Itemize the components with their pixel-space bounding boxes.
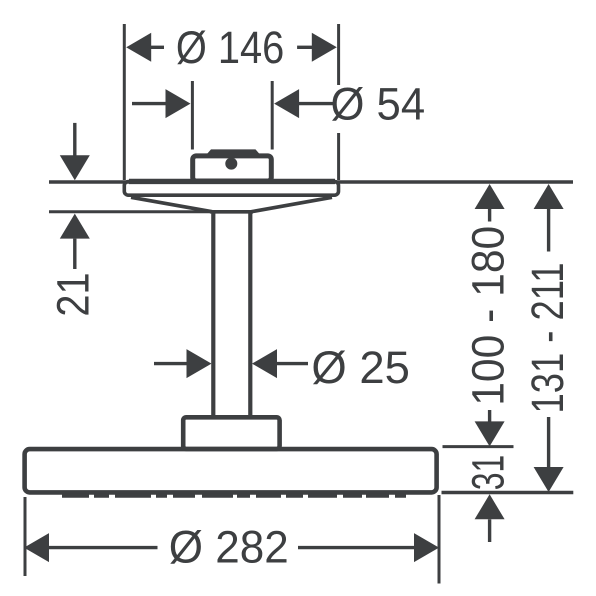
svg-text:Ø 25: Ø 25	[311, 342, 410, 393]
ext line right	[271, 81, 274, 150]
upper stub	[547, 209, 550, 252]
svg-text:21: 21	[48, 272, 99, 316]
lower ref line	[49, 210, 212, 213]
arrow right	[312, 33, 337, 62]
svg-text:31: 31	[463, 455, 514, 491]
pipe collar	[183, 417, 279, 449]
dimension 21	[48, 123, 213, 317]
dimension D146	[124, 22, 338, 180]
arrow up	[475, 494, 505, 519]
arrow left	[166, 89, 191, 118]
plate taper left	[131, 197, 212, 211]
ceiling plate	[124, 182, 338, 196]
upper stub	[488, 209, 491, 222]
ext line left	[123, 24, 126, 180]
dimension 100-180	[463, 184, 514, 446]
arrow left	[24, 533, 49, 562]
arrow up	[60, 214, 90, 239]
ext line left	[191, 81, 194, 150]
shower head	[25, 449, 437, 492]
lower stub	[488, 519, 491, 542]
dimension D54	[132, 79, 425, 150]
ceiling reference line	[49, 180, 573, 183]
dimension 31	[442, 447, 574, 542]
arrow down	[534, 467, 564, 492]
ext line right lower	[337, 133, 340, 180]
arrow right	[414, 533, 439, 562]
dimension D282	[24, 495, 439, 584]
arrow right	[274, 89, 299, 118]
upper ref line	[443, 445, 514, 448]
arrow down	[475, 421, 505, 446]
taper bottom edge	[210, 210, 253, 214]
mounting tab	[207, 149, 261, 154]
plate taper right	[252, 197, 333, 211]
svg-text:131 - 211: 131 - 211	[522, 263, 573, 414]
arrow up	[475, 184, 505, 209]
shower pipe	[211, 212, 215, 418]
tail right	[277, 362, 309, 365]
svg-text:100 - 180: 100 - 180	[463, 226, 514, 406]
arrow left	[126, 33, 151, 62]
ext line right upper	[337, 24, 340, 85]
lower stub	[488, 410, 491, 422]
tail left	[49, 546, 158, 549]
tail right	[298, 546, 415, 549]
tail left	[132, 102, 167, 105]
svg-text:Ø 146: Ø 146	[176, 22, 284, 73]
svg-text:Ø 282: Ø 282	[169, 521, 289, 572]
dim line right	[297, 46, 312, 49]
dim line left	[151, 46, 164, 49]
svg-text:Ø 54: Ø 54	[331, 79, 426, 130]
arrow right	[252, 349, 277, 378]
tail left	[154, 362, 187, 365]
ext line left	[24, 497, 27, 576]
screw	[225, 158, 237, 170]
spray nozzles	[62, 493, 406, 497]
arrow up	[534, 184, 564, 209]
ext line right	[438, 495, 441, 584]
dimension D25	[154, 342, 410, 393]
plate top edge (thick)	[129, 179, 335, 184]
arrow left	[187, 349, 212, 378]
lower ref line	[442, 491, 574, 494]
upper tail	[73, 123, 76, 157]
connector box	[193, 156, 272, 181]
tail right	[298, 102, 335, 105]
dimension 131-211	[522, 184, 573, 492]
lower stub	[547, 417, 550, 467]
lower tail	[73, 239, 76, 269]
arrow down	[60, 155, 90, 180]
